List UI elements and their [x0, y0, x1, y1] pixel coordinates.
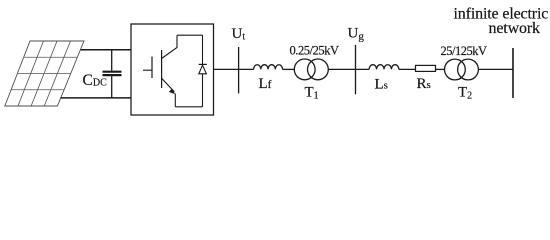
wire: Lf to T1 [283, 68, 295, 70]
IGBT body bar [161, 50, 163, 88]
resistor Rs [416, 65, 436, 71]
PV array panel outline [5, 41, 84, 106]
freewheeling diode branch wire [202, 35, 204, 65]
inverter internal top rail [177, 34, 203, 36]
PV array grid lines [11, 41, 77, 106]
transformer T2 secondary winding [458, 59, 479, 80]
bus U_g [355, 45, 357, 95]
inverter box U1 [131, 24, 214, 115]
svg-text:network: network [489, 20, 541, 37]
svg-text:25/125kV: 25/125kV [441, 44, 487, 58]
inductor Lf [254, 65, 283, 70]
wire: PV top output to inverter box [81, 49, 131, 51]
emitter vertical wire [174, 94, 176, 107]
capacitor C_DC [103, 50, 122, 98]
svg-text:Ls: Ls [375, 77, 388, 93]
IGBT collector lead [162, 35, 177, 58]
emitter arrowhead [169, 89, 176, 95]
svg-text:Rs: Rs [417, 76, 431, 92]
IGBT gate lead [143, 69, 152, 71]
wire: Ls to Rs [399, 68, 416, 70]
transformer T1 secondary winding [308, 59, 329, 80]
transformer T1 primary winding [294, 59, 315, 80]
IGBT gate bar [151, 57, 153, 78]
wire: T2 to infinite bus [478, 68, 513, 70]
wire: T1 to Ls [328, 68, 369, 70]
transformer T2 primary winding [445, 59, 466, 80]
infinite network bus bar [512, 48, 514, 98]
wire: Rs to T2 [436, 68, 445, 70]
bus U_t [238, 47, 240, 93]
svg-text:Lf: Lf [259, 76, 272, 92]
inverter internal bottom rail [175, 106, 202, 108]
IGBT emitter lead with arrow [162, 78, 175, 92]
svg-text:0.25/25kV: 0.25/25kV [290, 44, 339, 58]
wire: PV bottom output to inverter box [61, 97, 131, 99]
diode D1 [199, 63, 207, 65]
wire: inverter output to transformer T1 [214, 68, 254, 70]
inductor Ls [369, 65, 399, 70]
